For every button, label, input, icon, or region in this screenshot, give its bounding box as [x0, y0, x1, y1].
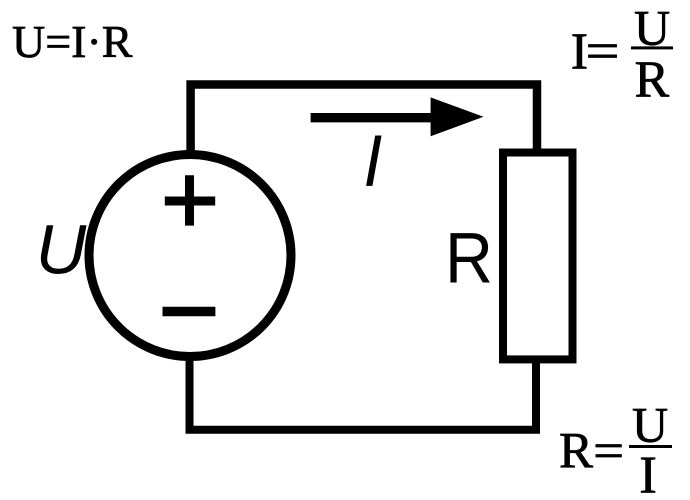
svg-text:I: I — [639, 447, 657, 500]
svg-text:=: = — [593, 424, 624, 480]
svg-text:R: R — [559, 424, 593, 480]
svg-text:U: U — [632, 396, 668, 452]
label I (current) — [366, 136, 381, 186]
formula I=U/R : fraction bar — [631, 46, 673, 49]
resistor R rectangle — [503, 153, 573, 360]
voltage source U1 circle — [89, 155, 291, 357]
wire bottom loop (source bottom, bottom horizontal, resistor bottom) — [190, 356, 537, 430]
current arrow — [311, 113, 436, 122]
formula R=U/I : fraction bar — [629, 445, 672, 448]
svg-text:U: U — [36, 211, 87, 289]
plus sign — [165, 175, 215, 225]
svg-text:U: U — [634, 0, 670, 56]
svg-text:R: R — [445, 220, 493, 299]
svg-text:=: = — [586, 24, 620, 81]
minus sign — [163, 307, 216, 316]
svg-text:U=I·R: U=I·R — [12, 16, 133, 67]
wire top loop (left vertical, top horizontal, right vertical) — [191, 85, 537, 156]
svg-text:R: R — [635, 52, 670, 109]
